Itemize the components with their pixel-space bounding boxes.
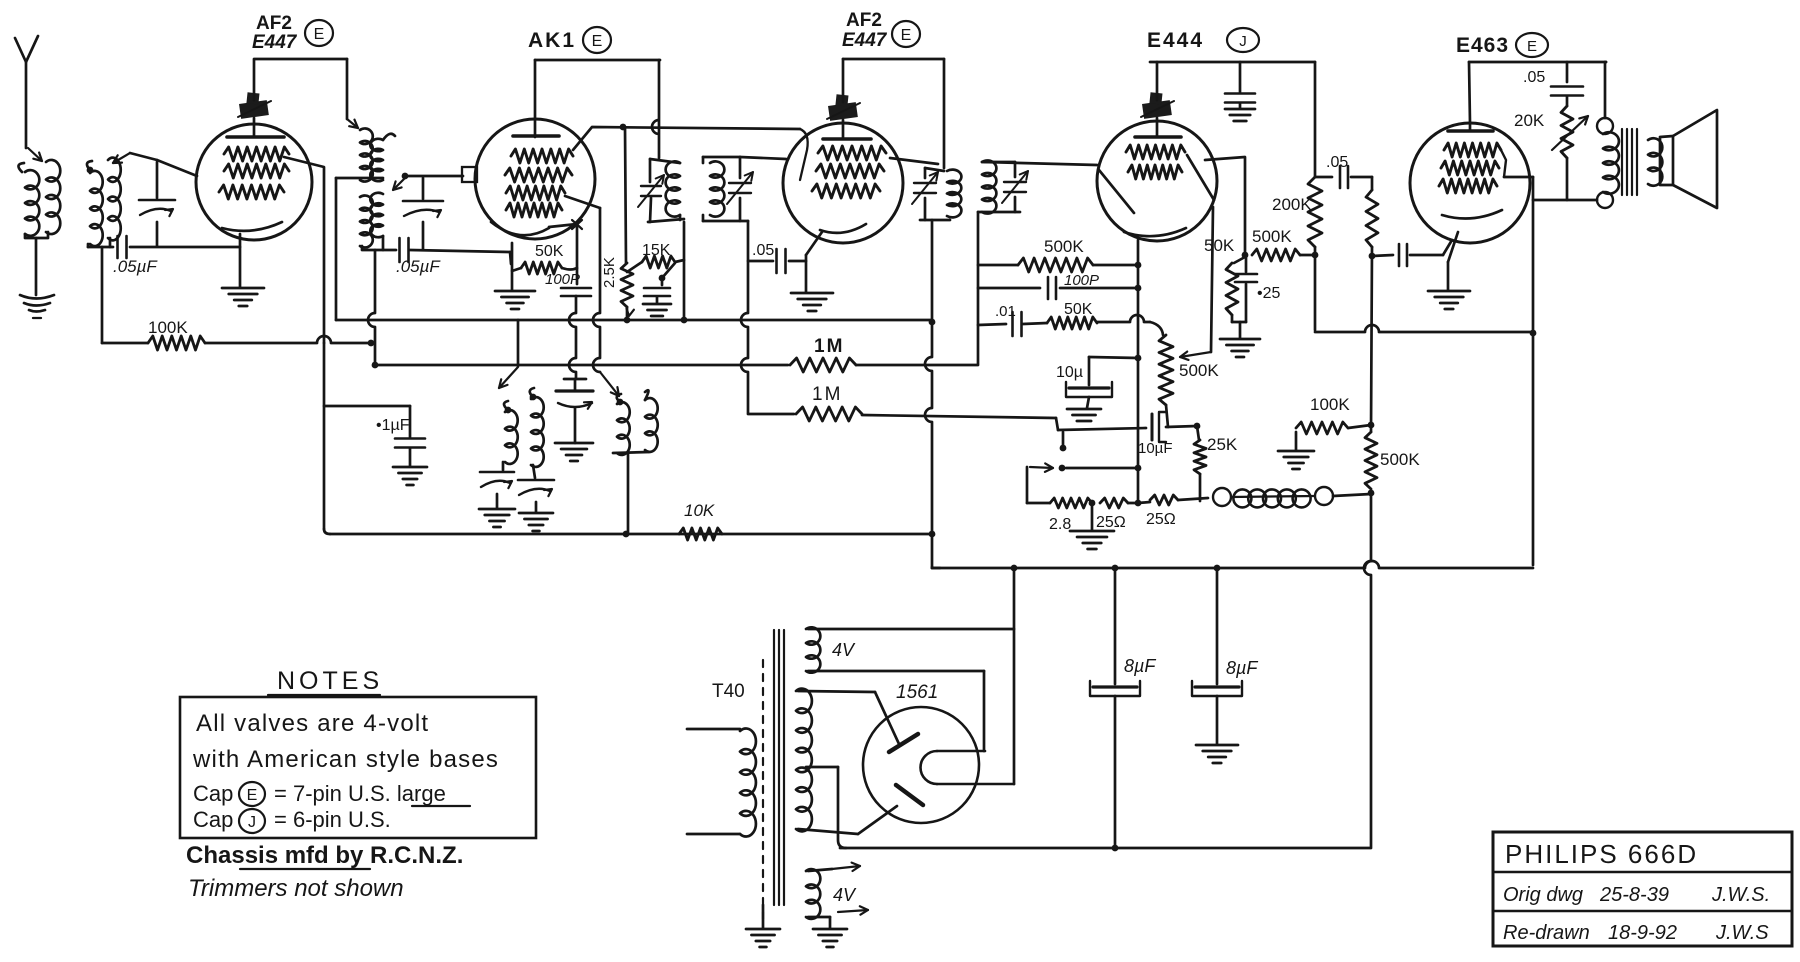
wire top rail corner	[1605, 61, 1606, 64]
IF2 primary can outline	[650, 159, 680, 163]
output transformer secondary coil	[1648, 138, 1662, 186]
antenna coupling coil L1a	[18, 163, 24, 172]
wire V5 top feed	[1469, 62, 1470, 123]
svg-text:10µ: 10µ	[1056, 364, 1083, 381]
svg-text:25K: 25K	[1207, 435, 1238, 454]
IF2 secondary can outline	[703, 156, 740, 159]
antenna coil L1b	[46, 160, 60, 234]
wire B- bus L6	[840, 847, 1370, 850]
wire bias vertical through L5 to L6	[1364, 493, 1371, 848]
wire V3 anode to IF3	[843, 58, 944, 61]
wire primary bottoms to B+ vertical	[336, 177, 383, 180]
IF3 secondary trimmer	[1014, 162, 1017, 177]
svg-text:Trimmers not shown: Trimmers not shown	[188, 875, 404, 902]
ground V5 cathode	[1428, 290, 1470, 293]
svg-text:PHILIPS 666D: PHILIPS 666D	[1505, 839, 1698, 869]
svg-text:100K: 100K	[1310, 395, 1350, 414]
rectifier anode bar 2	[896, 785, 923, 805]
ground T40 core	[762, 905, 765, 928]
pilot winding 4V bottom	[806, 869, 820, 919]
wire arrow into IF1 primary	[347, 119, 358, 128]
wire bus L3 (AGC)	[748, 413, 794, 416]
wire IF2 top to HT	[652, 60, 659, 158]
capacitor C5 oscillator padder + ground	[564, 378, 586, 381]
svg-text:18-9-92: 18-9-92	[1608, 922, 1677, 944]
svg-text:.05µF: .05µF	[396, 257, 441, 276]
wire coil bottoms join	[25, 232, 48, 238]
wire bus L2 (AVC rail)	[375, 364, 788, 367]
IF2 primary trimmer	[641, 185, 661, 187]
wire IF2 secondary top to V3 grid	[740, 157, 786, 159]
cap style E marker	[305, 20, 333, 46]
wire V1 anode to HT rail	[254, 58, 347, 61]
grid cap blob V3	[828, 102, 858, 121]
svg-text:1M: 1M	[812, 384, 842, 405]
IF3 primary trimmer	[924, 168, 927, 178]
wire secondary bottom	[362, 246, 396, 250]
capacitor C8 to ground at V4 top	[1239, 62, 1242, 92]
svg-text:= 7-pin U.S. large: = 7-pin U.S. large	[274, 781, 446, 806]
filament winding 4V top	[806, 627, 820, 672]
svg-text:4V: 4V	[833, 885, 857, 905]
svg-text:25Ω: 25Ω	[1146, 511, 1176, 528]
svg-text:Chassis mfd by R.C.N.Z.: Chassis mfd by R.C.N.Z.	[186, 842, 463, 869]
oscillator coil B	[530, 394, 537, 401]
ground V3 cathode	[791, 292, 833, 295]
capacitor .25	[1245, 257, 1248, 272]
svg-text:J.W.S: J.W.S	[1715, 922, 1769, 944]
wire antenna lead arrow	[28, 148, 42, 161]
svg-text:NOTES: NOTES	[277, 667, 383, 695]
IF2 primary coil	[666, 161, 680, 216]
wire V2 internal to V3 grid line	[573, 127, 800, 150]
svg-text:Orig dwg: Orig dwg	[1503, 884, 1583, 906]
svg-text:10K: 10K	[684, 501, 715, 520]
capacitor C2 .05uF (series)	[87, 244, 90, 247]
IF2 secondary coil	[710, 161, 724, 216]
wire band-switch arrow to L2b	[113, 153, 130, 163]
wire anode to output transformer	[1533, 199, 1597, 202]
ground antenna	[20, 295, 54, 299]
ground V1 cathode	[222, 287, 264, 290]
svg-text:20K: 20K	[1514, 111, 1545, 130]
wire bus L7 (B+ to output)	[1315, 325, 1533, 332]
grid connector square V2	[462, 167, 477, 182]
svg-text:10µF: 10µF	[1138, 440, 1173, 457]
tuned secondary coil L2b	[108, 158, 121, 241]
svg-text:E444: E444	[1147, 29, 1204, 52]
svg-text:= 6-pin U.S.: = 6-pin U.S.	[274, 807, 391, 832]
speaker field coil + terminals	[1213, 488, 1231, 506]
svg-text:100P: 100P	[1064, 272, 1099, 289]
svg-text:8µF: 8µF	[1226, 658, 1258, 678]
wire V4 top rail	[1150, 61, 1315, 64]
wire HT bottom to anode 2	[798, 829, 858, 834]
T40 primary coil	[687, 728, 740, 731]
wire HT top to anode 1	[798, 691, 875, 692]
ground osc A	[479, 508, 515, 511]
wire V5 cathode to ground	[1448, 232, 1458, 262]
wire V4 grid top to 50K junction	[1205, 157, 1245, 254]
svg-text:50K: 50K	[1064, 301, 1093, 318]
svg-text:.05: .05	[752, 242, 774, 259]
title block box	[1493, 832, 1792, 946]
IF3 primary coil	[947, 170, 961, 218]
coil IF1 secondary a	[360, 196, 373, 248]
wire V4 grid diagonal	[1099, 170, 1134, 213]
wire padder vertical to osc	[569, 296, 576, 378]
wire V2 osc grid to switch	[565, 196, 600, 208]
svg-text:500K: 500K	[1179, 361, 1219, 380]
capacitor C9 to V5 cathode	[1369, 253, 1376, 260]
wire V5 plate exit	[1501, 150, 1506, 177]
svg-text:1M: 1M	[814, 336, 844, 357]
svg-text:.05: .05	[1523, 69, 1545, 86]
svg-text:500K: 500K	[1044, 237, 1084, 256]
svg-text:J: J	[1239, 33, 1247, 50]
wire rectifier output vertical	[1013, 568, 1016, 784]
wire V5 HT rail	[1469, 61, 1606, 64]
capacitor .1uF + ground	[324, 405, 410, 408]
svg-text:4V: 4V	[832, 640, 856, 660]
wire pot bottom to 10uF line	[1166, 405, 1168, 427]
wire to ground .25	[1239, 322, 1242, 338]
svg-text:500K: 500K	[1380, 450, 1420, 469]
capacitor 100P feedback	[978, 287, 1040, 290]
resistor grid leak V5	[1371, 177, 1374, 190]
IF3 secondary can outline	[982, 161, 1015, 164]
IF2 secondary trimmer	[739, 157, 742, 178]
svg-text:1561: 1561	[896, 682, 938, 703]
padding capacitor osc A	[502, 462, 505, 470]
ground 100K	[1278, 450, 1314, 453]
grid cap blob V4	[1142, 100, 1172, 119]
rectifier anode bar 1	[889, 734, 918, 752]
wire V3 screen stub	[890, 158, 938, 164]
svg-text:Cap: Cap	[193, 807, 233, 832]
switch contacts	[1060, 445, 1067, 452]
svg-text:All valves are 4-volt: All valves are 4-volt	[196, 710, 429, 737]
svg-text:500K: 500K	[1252, 227, 1292, 246]
switch arrow osc b	[600, 372, 619, 396]
wire HT centre tap to B-	[806, 766, 838, 769]
capacitor C4 .05uF series	[398, 238, 401, 262]
IF3 primary can outline	[925, 168, 944, 171]
wire AVC line L3 jog	[1056, 418, 1058, 430]
svg-text:200K: 200K	[1272, 195, 1312, 214]
coil IF1 primary a	[360, 128, 373, 181]
tube V2 envelope	[475, 119, 595, 239]
svg-text:25Ω: 25Ω	[1096, 514, 1126, 531]
svg-text:E447: E447	[842, 30, 888, 51]
svg-text:AF2: AF2	[846, 10, 882, 31]
ground 50K	[495, 290, 535, 293]
antenna	[15, 36, 38, 62]
wire IF3 secondary top to V4 grid	[984, 162, 1097, 165]
wire grid lead to V2 with switch arrow	[402, 173, 409, 180]
tuned secondary coil L2a	[87, 167, 94, 174]
wire V4 cathode vertical	[1137, 240, 1140, 503]
svg-text:E: E	[314, 26, 325, 43]
capacitor .01 + resistor 50K	[978, 324, 1006, 325]
svg-text:E: E	[592, 33, 603, 50]
output transformer primary coil	[1603, 132, 1619, 193]
output transformer primary terminals	[1597, 118, 1613, 134]
svg-text:50K: 50K	[1204, 236, 1235, 255]
wire B+ vertical right	[1532, 177, 1535, 565]
oscillator coil D pair	[617, 399, 624, 406]
wire grid junction to tube V1	[130, 153, 157, 160]
coil IF1 primary b	[383, 134, 395, 140]
tube V4 envelope	[1097, 121, 1217, 241]
wire osc D to chassis bus	[627, 453, 630, 534]
tuning capacitor C3 (variable)	[422, 178, 425, 199]
svg-text:E463: E463	[1456, 34, 1509, 57]
speaker horn	[1660, 110, 1717, 208]
rectifier cathode loop	[937, 750, 985, 753]
svg-text:E: E	[247, 787, 258, 804]
oscillator coil A	[505, 407, 512, 414]
ground 8uF second	[1196, 744, 1238, 747]
svg-text:.05µF: .05µF	[113, 257, 158, 276]
svg-text:T40: T40	[712, 681, 745, 702]
output transformer core	[1621, 129, 1623, 195]
wire V1 cathode to ground	[239, 234, 242, 287]
svg-text:AF2: AF2	[256, 13, 292, 34]
switch arrow osc a	[499, 367, 518, 388]
svg-text:E: E	[901, 27, 912, 44]
svg-text:J: J	[248, 814, 256, 831]
svg-text:100K: 100K	[148, 318, 188, 337]
svg-text:50K: 50K	[535, 243, 564, 260]
svg-text:•1µF: •1µF	[376, 417, 410, 434]
svg-text:with American style bases: with American style bases	[192, 746, 499, 773]
notes box	[180, 697, 536, 838]
wire V3 cathode to ground	[806, 232, 822, 255]
T40 HT secondary coil	[796, 689, 812, 832]
wire IF2 primary bottom to bus	[683, 222, 686, 320]
svg-text:2.8: 2.8	[1049, 516, 1071, 533]
svg-text:E: E	[1527, 38, 1537, 55]
grid cap blob V1	[239, 100, 269, 119]
svg-text:Re-drawn: Re-drawn	[1503, 922, 1590, 944]
padding capacitor osc B	[533, 465, 535, 478]
svg-text:.05: .05	[1326, 154, 1348, 171]
wire osc pad vertical	[368, 250, 375, 365]
ground 50K/.25	[1220, 338, 1260, 341]
coil IF1 secondary b	[370, 193, 383, 238]
wire V2 cathode junction	[549, 224, 577, 227]
wire IF3 secondary bottom vertical	[977, 212, 980, 364]
svg-text:100P: 100P	[545, 271, 580, 288]
svg-text:J.W.S.: J.W.S.	[1711, 884, 1770, 906]
tuning capacitor C1 (variable)	[156, 162, 159, 198]
electrolytic 10uF coupling	[1151, 414, 1154, 440]
svg-text:Cap: Cap	[193, 781, 233, 806]
svg-text:AK1: AK1	[528, 29, 576, 52]
wire V1 grid return right side	[284, 157, 324, 343]
rectifier V6 envelope	[863, 707, 979, 823]
wire AVC vertical	[101, 247, 104, 343]
wire bus L1 (screen rail)	[336, 319, 932, 322]
svg-text:E447: E447	[252, 32, 298, 53]
ground pilot winding	[813, 928, 847, 931]
wire IF2 secondary bottom vertical	[741, 221, 748, 413]
capacitor 8uF second	[1216, 568, 1219, 684]
svg-text:25-8-39: 25-8-39	[1599, 884, 1669, 906]
tube V3 envelope	[783, 123, 903, 243]
wire osc feed a	[517, 320, 520, 366]
T40 core	[762, 660, 764, 667]
wire screen tap vertical	[625, 127, 626, 263]
tube V5 envelope	[1410, 123, 1530, 243]
wire V2 anode to HT rail	[534, 60, 537, 137]
svg-text:8µF: 8µF	[1124, 656, 1156, 676]
tube V1 envelope	[196, 124, 312, 240]
capacitor C6 + ground	[662, 263, 675, 278]
potentiometer 500K volume	[1159, 335, 1173, 405]
wire bus L4 (chassis)	[323, 343, 326, 529]
svg-text:•25: •25	[1257, 285, 1281, 302]
svg-text:2.5K: 2.5K	[601, 257, 618, 288]
wire V4 plate exit to volume pot	[1187, 155, 1214, 200]
IF3 secondary coil	[982, 160, 996, 213]
ground bias chain	[1091, 503, 1094, 530]
capacitor 8uF first	[1114, 568, 1117, 684]
wire IF3 primary bottom vertical	[925, 220, 932, 567]
wire HT bus L5	[932, 567, 940, 570]
ground osc B	[519, 512, 553, 515]
